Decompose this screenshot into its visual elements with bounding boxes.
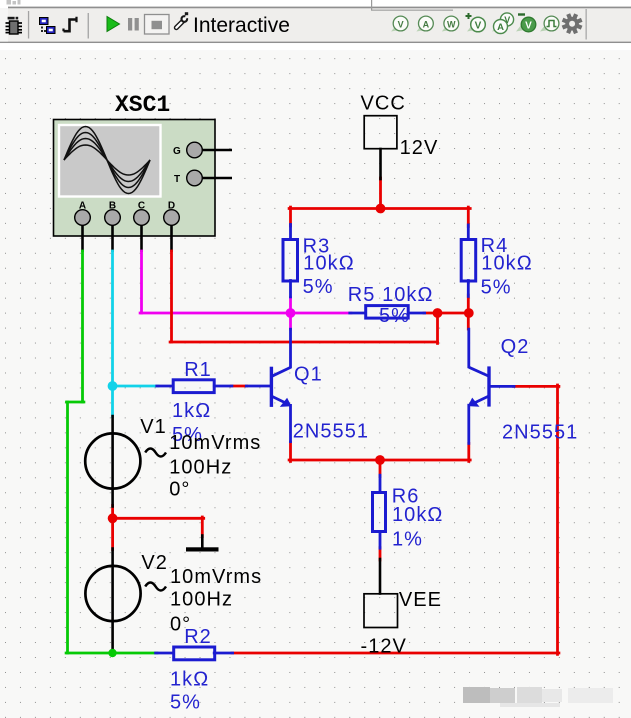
- svg-text:VCC: VCC: [361, 93, 406, 115]
- svg-text:Interactive: Interactive: [193, 14, 290, 37]
- wire VCC stub black: [379, 149, 382, 179]
- svg-text:100Hz: 100Hz: [170, 589, 233, 611]
- wire right red vertical: [556, 385, 559, 654]
- wire V1-V2 red segment: [111, 518, 114, 549]
- svg-text:VEE: VEE: [399, 589, 442, 611]
- svg-text:0°: 0°: [170, 614, 191, 636]
- junction R1 input: [108, 381, 118, 391]
- svg-text:10kΩ: 10kΩ: [303, 253, 354, 275]
- wire V1 through line: [111, 416, 114, 507]
- wire ground black vertical: [201, 536, 204, 549]
- svg-text:5%: 5%: [170, 692, 201, 714]
- junction Q1 collector: [286, 308, 296, 318]
- wire R1 to Q1 base red segment: [231, 385, 246, 388]
- wire R4 bottom red segment: [467, 295, 470, 329]
- wire ground red vertical: [201, 517, 204, 537]
- toolbar probe icon AV: [492, 13, 514, 34]
- resistor R6 body: [373, 493, 386, 532]
- oscilloscope C terminal: [134, 201, 150, 253]
- wire Q2 emitter red segment: [467, 443, 470, 461]
- toolbar stop button: [145, 15, 170, 35]
- svg-text:V2: V2: [141, 552, 168, 574]
- wire V1 bottom red segment: [111, 506, 114, 520]
- toolbar transient/step icon: [64, 17, 77, 31]
- svg-text:R5 10kΩ: R5 10kΩ: [348, 284, 434, 306]
- R6 leads: [379, 475, 382, 492]
- svg-text:10mVrms: 10mVrms: [169, 432, 261, 454]
- toolbar probe icon +V: [466, 13, 486, 32]
- svg-text:G: G: [173, 146, 181, 157]
- svg-text:5%: 5%: [303, 276, 334, 298]
- toolbar separator: [586, 9, 587, 40]
- svg-text:5%: 5%: [481, 277, 512, 299]
- R3 leads: [289, 225, 292, 240]
- svg-text:10mVrms: 10mVrms: [170, 566, 262, 588]
- svg-text:T: T: [174, 174, 180, 185]
- toolbar IC chip icon: [6, 17, 23, 34]
- wire emitter rail: [289, 459, 470, 462]
- toolbar wrench icon: [176, 12, 190, 28]
- resistor R3 body: [283, 240, 298, 282]
- junction R5-D: [433, 308, 443, 318]
- toolbar probe icon A: [416, 16, 433, 31]
- toolbar hierarchy icon: [40, 18, 56, 34]
- wire magenta horizontal to R5: [140, 312, 351, 315]
- wire R6 top red segment: [379, 459, 382, 477]
- AC source V1: [85, 433, 166, 488]
- wire scope-D red horizontal: [170, 341, 437, 344]
- transistor Q2: [468, 328, 489, 445]
- svg-text:100Hz: 100Hz: [169, 457, 232, 479]
- wire ground horizontal: [111, 517, 204, 520]
- R2 leads: [156, 652, 174, 655]
- watermark: [463, 687, 613, 707]
- R4 leads: [467, 225, 470, 240]
- toolbar separator: [28, 11, 29, 39]
- junction emitter rail: [375, 455, 385, 465]
- junction V2 bottom: [108, 649, 116, 657]
- AC source V2: [85, 566, 166, 621]
- svg-text:V: V: [475, 20, 482, 31]
- resistor R5 body: [366, 306, 409, 319]
- svg-text:Q2: Q2: [501, 336, 530, 358]
- VEE supply: [364, 594, 398, 628]
- oscilloscope T terminal: [174, 170, 232, 186]
- wire R5 right red segment: [424, 312, 438, 315]
- svg-text:D: D: [168, 201, 175, 212]
- wire collector node link: [436, 312, 470, 315]
- R1 leads: [157, 385, 173, 388]
- wire green jog horizontal: [67, 401, 84, 404]
- svg-text:A: A: [423, 19, 430, 29]
- wire Q1 emitter red segment: [289, 442, 292, 461]
- wire scope-A green vertical: [81, 251, 84, 402]
- svg-text:2N5551: 2N5551: [293, 421, 369, 443]
- oscilloscope B terminal: [105, 201, 121, 253]
- wire V2 through line: [111, 549, 114, 654]
- VCC supply: [364, 116, 397, 149]
- svg-text:Q1: Q1: [294, 364, 323, 386]
- wire scope-D red up to node: [436, 312, 439, 343]
- toolbar background: [0, 0, 631, 50]
- wire R3 top red segment: [289, 207, 292, 226]
- wire VEE stub black: [379, 559, 382, 594]
- wire Q2 base blue: [491, 385, 515, 388]
- wire cyan to R1: [113, 385, 159, 388]
- wire R4 top red segment: [467, 207, 470, 226]
- toolbar probe icon -V: [516, 15, 536, 32]
- svg-text:10kΩ: 10kΩ: [392, 504, 443, 526]
- svg-text:C: C: [138, 201, 145, 212]
- toolbar probe icon W: [442, 16, 459, 31]
- svg-text:V: V: [525, 20, 532, 31]
- oscilloscope XSC1 body: [54, 120, 216, 237]
- wire scope-C magenta vertical: [140, 251, 143, 313]
- toolbar probe icon V: [391, 16, 408, 31]
- oscilloscope G terminal: [173, 142, 232, 158]
- svg-text:10kΩ: 10kΩ: [481, 253, 532, 275]
- svg-text:B: B: [109, 201, 116, 212]
- wire Q2 base red segment: [514, 385, 559, 388]
- ground symbol bar: [186, 547, 219, 551]
- svg-text:1kΩ: 1kΩ: [170, 669, 209, 691]
- svg-text:-12V: -12V: [361, 636, 407, 658]
- wire scope-D red vertical: [170, 251, 173, 342]
- toolbar probe icon pulse: [540, 16, 559, 31]
- R5 leads: [350, 312, 366, 315]
- toolbar cut-off icon fragment: [7, 0, 21, 5]
- wire R3 bottom magenta segment: [289, 298, 292, 330]
- svg-text:5%: 5%: [379, 305, 410, 327]
- toolbar play button: [107, 17, 120, 32]
- wire VCC top rail: [289, 207, 470, 210]
- svg-text:12V: 12V: [400, 137, 439, 159]
- wire R6 bottom red segment: [379, 548, 382, 560]
- toolbar separator: [88, 13, 89, 39]
- svg-text:XSC1: XSC1: [115, 92, 170, 118]
- wire green left vertical: [66, 402, 69, 653]
- wire scope-B cyan vertical: [111, 251, 114, 417]
- wire VCC red segment: [379, 178, 382, 210]
- svg-text:0°: 0°: [169, 479, 190, 501]
- junction V1 bottom: [108, 513, 118, 523]
- svg-text:1kΩ: 1kΩ: [172, 400, 211, 422]
- svg-text:A: A: [497, 22, 504, 33]
- junction VCC rail: [376, 204, 386, 214]
- resistor R2 body: [174, 647, 215, 660]
- resistor R1 body: [173, 380, 214, 393]
- svg-text:W: W: [447, 19, 456, 29]
- toolbar pause button: [128, 18, 139, 31]
- svg-text:R1: R1: [184, 359, 212, 381]
- resistor R4 body: [461, 240, 476, 282]
- svg-text:2N5551: 2N5551: [502, 422, 578, 444]
- svg-text:A: A: [79, 201, 86, 212]
- oscilloscope screen waveforms: [64, 127, 150, 194]
- junction R4-Q2: [464, 308, 474, 318]
- svg-text:V1: V1: [140, 416, 167, 438]
- toolbar gear icon: [562, 13, 583, 34]
- svg-text:1%: 1%: [392, 529, 423, 551]
- wire bottom red horizontal: [232, 652, 559, 655]
- wire R1 to Q1 base blue: [246, 385, 270, 388]
- svg-text:V: V: [398, 19, 404, 29]
- oscilloscope D terminal: [164, 201, 180, 253]
- wire green bottom horizontal: [66, 652, 157, 655]
- oscilloscope A terminal: [75, 201, 91, 253]
- transistor Q1: [271, 328, 291, 443]
